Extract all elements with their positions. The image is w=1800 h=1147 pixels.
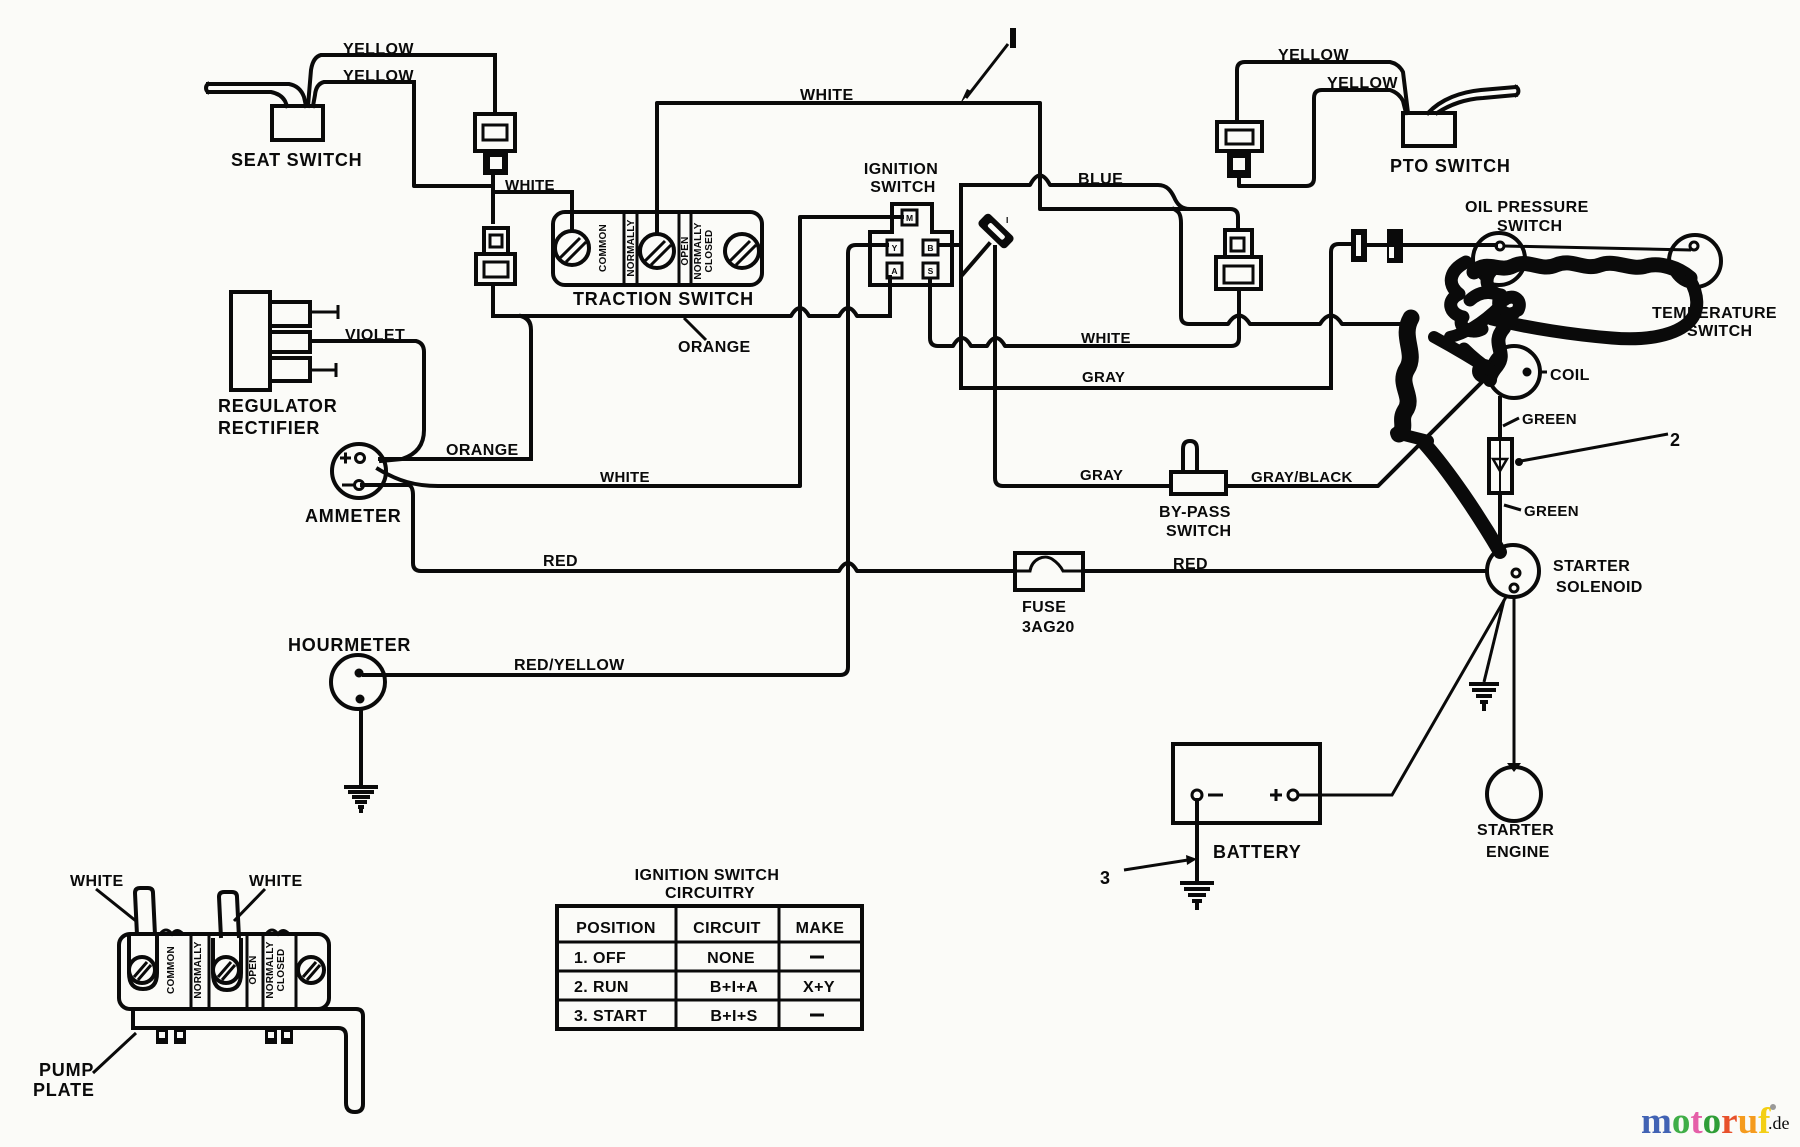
wire: diagonal from pin B vertical to key symbol: [963, 244, 989, 274]
connector (seat chain, upper): [475, 114, 515, 175]
wire: pto upper connector loop to yellow #2: [1239, 90, 1406, 186]
pump plate wire stub right: [219, 892, 239, 938]
svg-text:NORMALLY: NORMALLY: [626, 219, 637, 276]
battery - terminal: [1192, 790, 1223, 800]
pump plate leader: [93, 1033, 136, 1073]
wire: starter solenoid to ground: [1484, 600, 1504, 682]
ignition switch pin Y: [887, 240, 902, 255]
wire: hourmeter to ground: [359, 711, 363, 787]
svg-text:STARTER: STARTER: [1477, 822, 1554, 839]
pump plate bracket: [133, 1009, 363, 1112]
svg-text:COMMON: COMMON: [598, 224, 609, 272]
traction switch column labels: [598, 219, 715, 279]
svg-text:S: S: [928, 266, 934, 276]
svg-text:COMMON: COMMON: [166, 946, 177, 994]
pump plate column labels: [166, 941, 287, 998]
svg-text:BY-PASS: BY-PASS: [1159, 504, 1231, 521]
svg-text:PTO SWITCH: PTO SWITCH: [1390, 156, 1511, 176]
ignition switch pin M: [902, 210, 917, 225]
svg-text:FUSE: FUSE: [1022, 599, 1066, 616]
svg-text:ENGINE: ENGINE: [1486, 844, 1550, 861]
svg-text:CLOSED: CLOSED: [276, 949, 287, 992]
svg-text:3. START: 3. START: [574, 1008, 647, 1025]
green label leader upper: [1503, 418, 1519, 426]
pump plate dividers: [191, 934, 296, 1009]
svg-text:HOURMETER: HOURMETER: [288, 635, 411, 655]
ignition switch circuitry table frame: [557, 906, 862, 1029]
svg-text:SEAT SWITCH: SEAT SWITCH: [231, 150, 362, 170]
pump plate clip bumps: [160, 930, 289, 934]
wire: ammeter + to orange branch: [380, 457, 531, 461]
svg-text:NORMALLY: NORMALLY: [265, 941, 276, 998]
svg-text:CIRCUITRY: CIRCUITRY: [665, 885, 755, 902]
svg-text:SWITCH: SWITCH: [870, 179, 936, 196]
wire: violet from regulator to ammeter: [310, 341, 424, 461]
svg-text:B: B: [927, 243, 933, 253]
seat switch box: [272, 106, 323, 140]
marker scribble hook from temperature switch: [1492, 280, 1697, 339]
item 2 leader arrow: [1521, 434, 1668, 461]
svg-text:TRACTION SWITCH: TRACTION SWITCH: [573, 289, 754, 309]
svg-text:CIRCUIT: CIRCUIT: [693, 920, 761, 937]
svg-text:OIL PRESSURE: OIL PRESSURE: [1465, 199, 1589, 216]
svg-text:SWITCH: SWITCH: [1166, 523, 1232, 540]
starter engine: [1487, 763, 1541, 821]
pump plate terminal right: [213, 938, 241, 990]
ignition switch pin S: [923, 263, 938, 278]
svg-text:RED/YELLOW: RED/YELLOW: [514, 657, 625, 674]
traction switch dividers: [624, 212, 691, 285]
wire: gray run to oil pressure switch: [961, 244, 1496, 388]
battery box: [1173, 744, 1320, 823]
regulator rectifier body: [231, 292, 270, 390]
white label leader left: [96, 889, 136, 921]
svg-text:ORANGE: ORANGE: [446, 442, 519, 459]
svg-text:WHITE: WHITE: [1081, 330, 1131, 347]
svg-text:3AG20: 3AG20: [1022, 619, 1075, 636]
inline terminal blocks before oil pressure switch: [1351, 229, 1403, 263]
item 1 leader arrow: [966, 44, 1008, 98]
wire: orange run to ignition pin A with hops: [493, 277, 890, 316]
item 1 label: [1010, 28, 1016, 48]
ignition switch pin B: [923, 240, 938, 255]
wire: blue from ignition pin B with hop: [961, 176, 1190, 210]
wire: battery - to ground: [1195, 800, 1199, 883]
svg-text:A: A: [891, 266, 897, 276]
svg-text:SOLENOID: SOLENOID: [1556, 579, 1643, 596]
wire: ignition pin B stub and vertical: [939, 185, 961, 388]
white label leader right: [234, 889, 265, 921]
wire: gray from key symbol down to by-pass switch: [995, 247, 1171, 486]
pump plate screw 2: [213, 957, 239, 983]
svg-text:COIL: COIL: [1550, 367, 1590, 384]
battery + terminal: [1270, 789, 1298, 801]
wire: battery + to starter solenoid diagonal: [1298, 597, 1506, 795]
svg-text:ORANGE: ORANGE: [678, 339, 751, 356]
wire: branch from blue junction down to scribble run: [1174, 209, 1407, 324]
wire: regulator pin ticks: [310, 305, 338, 377]
svg-text:WHITE: WHITE: [249, 873, 303, 890]
svg-text:NORMALLY: NORMALLY: [193, 941, 204, 998]
svg-text:RED: RED: [1173, 556, 1208, 573]
oil pressure switch: [1473, 233, 1525, 285]
svg-text:3: 3: [1100, 868, 1111, 888]
wire: yellow #1 from seat switch to connector: [308, 55, 495, 106]
wire: pto switch cable open end: [1428, 87, 1518, 113]
orange label leader: [684, 318, 706, 340]
svg-text:VIOLET: VIOLET: [345, 327, 405, 344]
green label leader lower: [1504, 505, 1521, 510]
marker scribble descender to coil: [1490, 328, 1504, 380]
svg-text:YELLOW: YELLOW: [1327, 75, 1398, 92]
svg-text:M: M: [906, 213, 913, 223]
svg-text:PUMP: PUMP: [39, 1060, 94, 1080]
starter solenoid: [1487, 545, 1539, 597]
wire: white from ignition pin S to pto connector with hops: [930, 279, 1239, 346]
fuse 3AG20: [1015, 553, 1083, 590]
wire: red from ammeter to fuse to starter solenoid with hop: [362, 485, 1487, 571]
traction switch screw 2: [640, 234, 674, 268]
marker scribble diagonal into coil area: [1434, 337, 1493, 372]
wire: connector stem junction to traction switch common: [493, 175, 572, 231]
svg-text:IGNITION SWITCH: IGNITION SWITCH: [635, 867, 780, 884]
svg-text:SWITCH: SWITCH: [1497, 218, 1563, 235]
wire: seat chain lower connector stem to orange run: [491, 284, 495, 316]
svg-text:WHITE: WHITE: [800, 87, 854, 104]
wire: oil pressure to temperature switch: [1504, 246, 1691, 250]
wire: red/yellow from hourmeter up to ignition pin Y: [364, 245, 887, 675]
by-pass switch: [1171, 441, 1226, 494]
ground at starter solenoid: [1469, 684, 1499, 711]
marker scribble cluster at oil pressure switch: [1451, 262, 1482, 331]
regulator rectifier prongs: [270, 302, 310, 326]
diode component item 2: [1489, 439, 1512, 493]
svg-text:WHITE: WHITE: [70, 873, 124, 890]
coil: [1488, 346, 1547, 398]
key symbol near ignition switch: [977, 212, 1015, 250]
ground at hourmeter: [344, 787, 378, 813]
svg-text:2: 2: [1670, 430, 1681, 450]
svg-text:1. OFF: 1. OFF: [574, 950, 626, 967]
ammeter: [332, 444, 386, 498]
svg-text:GRAY: GRAY: [1080, 467, 1123, 484]
svg-text:NORMALLY: NORMALLY: [693, 222, 704, 279]
svg-text:RED: RED: [543, 553, 578, 570]
svg-text:STARTER: STARTER: [1553, 558, 1630, 575]
svg-text:2. RUN: 2. RUN: [574, 979, 629, 996]
svg-text:SWITCH: SWITCH: [1687, 323, 1753, 340]
svg-text:GRAY/BLACK: GRAY/BLACK: [1251, 469, 1353, 486]
svg-text:REGULATOR: REGULATOR: [218, 396, 338, 416]
traction switch screw 3: [725, 234, 759, 268]
svg-text:B+I+A: B+I+A: [710, 979, 758, 996]
wire: yellow #1 right run into pto switch: [1237, 62, 1408, 122]
svg-text:B+I+S: B+I+S: [710, 1008, 757, 1025]
wire: yellow #1 vertical drop: [493, 55, 497, 114]
connector (pto chain, upper): [1217, 122, 1262, 178]
svg-text:motoruf: motoruf: [1641, 1101, 1771, 1142]
svg-text:WHITE: WHITE: [505, 177, 555, 194]
svg-text:WHITE: WHITE: [600, 469, 650, 486]
svg-text:CLOSED: CLOSED: [704, 230, 715, 273]
wire: white top run traction switch to blue junction: [657, 103, 1238, 231]
svg-text:GRAY: GRAY: [1082, 369, 1125, 386]
hourmeter: [331, 655, 385, 709]
svg-text:GREEN: GREEN: [1522, 411, 1577, 428]
wire: yellow #2 from seat switch: [313, 82, 414, 106]
svg-text:BATTERY: BATTERY: [1213, 842, 1302, 862]
svg-text:YELLOW: YELLOW: [343, 68, 414, 85]
marker scribble diagonal to starter solenoid: [1424, 443, 1500, 552]
wire: gray/black from by-pass switch diagonal to coil: [1226, 372, 1492, 486]
svg-text:GREEN: GREEN: [1524, 503, 1579, 520]
svg-text:Y: Y: [892, 243, 898, 253]
traction switch body: [553, 212, 762, 285]
svg-text:AMMETER: AMMETER: [305, 506, 402, 526]
marker scribble vertical left: [1399, 318, 1411, 434]
svg-text:BLUE: BLUE: [1078, 171, 1123, 188]
svg-text:IGNITION: IGNITION: [864, 161, 938, 178]
svg-text:OPEN: OPEN: [248, 955, 259, 984]
svg-text:TEMPERATURE: TEMPERATURE: [1652, 305, 1777, 322]
ignition switch connector outline: [870, 204, 952, 285]
svg-text:NONE: NONE: [707, 950, 755, 967]
ground at battery: [1180, 883, 1214, 910]
pump plate switch body: [119, 934, 329, 1009]
temperature switch: [1669, 235, 1721, 287]
connector (pto chain, lower): [1216, 230, 1261, 289]
svg-text:.de: .de: [1768, 1113, 1790, 1133]
connector (seat chain, lower): [476, 228, 515, 284]
ignition switch pin A: [887, 263, 902, 278]
svg-text:I: I: [1006, 215, 1008, 225]
wire: seat switch cable (open end, top left): [206, 84, 306, 106]
pump plate bolts: [156, 1028, 293, 1044]
svg-text:POSITION: POSITION: [576, 920, 656, 937]
wire: orange branch down to ammeter: [521, 316, 531, 458]
marker scribble blob at coil: [1464, 349, 1491, 371]
wire: starter solenoid to starter engine: [1513, 597, 1516, 765]
svg-text:OPEN: OPEN: [680, 236, 691, 265]
wire: white from ammeter up to ignition pin M: [378, 217, 902, 486]
pump plate wire stub left: [135, 888, 155, 935]
pto switch box: [1403, 113, 1455, 146]
svg-text:RECTIFIER: RECTIFIER: [218, 418, 320, 438]
wire: green wire coil to diode to starter solenoid: [1498, 398, 1502, 546]
svg-text:MAKE: MAKE: [796, 920, 845, 937]
svg-text:PLATE: PLATE: [33, 1080, 95, 1100]
marker scribble band oil pressure to temperature: [1474, 263, 1690, 278]
svg-text:YELLOW: YELLOW: [1278, 47, 1349, 64]
pump plate screw 1: [129, 957, 155, 983]
pump plate screw 3: [298, 957, 324, 983]
svg-text:X+Y: X+Y: [803, 979, 835, 996]
pump plate terminal left: [129, 935, 157, 989]
traction switch screw 1: [555, 231, 589, 265]
item 3 leader arrow: [1124, 860, 1188, 870]
svg-text:YELLOW: YELLOW: [343, 41, 414, 58]
wire: yellow #2 vertical and white return: [414, 82, 493, 186]
